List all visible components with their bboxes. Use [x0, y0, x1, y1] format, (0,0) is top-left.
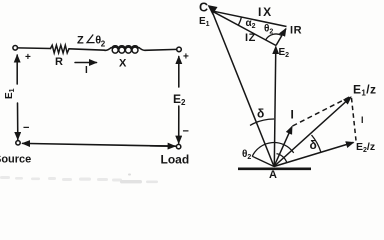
current arrow I	[75, 62, 97, 64]
phasor E1 line A to C	[213, 13, 275, 167]
line IX from C to P	[212, 11, 287, 27]
arc theta2 at top near T	[266, 34, 282, 40]
svg-text:C: C	[199, 1, 208, 15]
arc mid at A	[277, 154, 287, 163]
voltage arrow E1 up	[16, 55, 18, 84]
phasor E2 vertical	[274, 47, 276, 167]
svg-text:−: −	[23, 122, 29, 134]
wire top-right	[145, 48, 177, 51]
phasor I	[274, 127, 292, 167]
svg-text:IR: IR	[290, 25, 302, 37]
svg-text:−: −	[183, 126, 189, 138]
svg-text:2: 2	[101, 40, 106, 49]
node bottom-right terminal	[176, 144, 180, 148]
arc theta2 big at A	[252, 143, 294, 157]
svg-text:+: +	[183, 52, 189, 63]
label Z angle theta2	[77, 35, 106, 49]
node top-left terminal	[13, 46, 18, 51]
svg-text:θ2: θ2	[242, 149, 251, 161]
svg-text:E2: E2	[173, 92, 186, 107]
phasor E2/z	[274, 142, 354, 166]
dashed line I extended to E1/z tip	[293, 97, 351, 127]
arc delta right	[312, 135, 321, 152]
arrow on bottom wire pointing right into load	[150, 145, 175, 147]
dashed line from E1/z tip to E2/z tip	[352, 98, 357, 141]
svg-text:δ: δ	[310, 138, 317, 152]
arc delta left between E1 and E2	[250, 119, 274, 125]
svg-text:Source: Source	[0, 154, 31, 166]
svg-text:IZ: IZ	[245, 32, 256, 44]
resistor R	[51, 45, 70, 53]
svg-text:IX: IX	[258, 5, 273, 19]
svg-text:X: X	[119, 58, 127, 70]
svg-text:E2: E2	[279, 47, 290, 59]
arrowhead at C	[209, 6, 217, 14]
line IZ from tip of E2 to C	[212, 11, 277, 46]
faint scan bleed-through smudges along bottom	[0, 174, 158, 184]
svg-text:+: +	[25, 52, 31, 63]
ray at 155 deg from A	[252, 156, 274, 166]
svg-text:I: I	[85, 65, 88, 76]
svg-text:E1/z: E1/z	[353, 83, 376, 98]
svg-text:R: R	[55, 56, 63, 68]
svg-text:I: I	[291, 108, 294, 122]
node top-right terminal	[177, 47, 182, 52]
wire right vertical lower / E2 down arrow	[178, 106, 180, 143]
node bottom-left terminal	[16, 141, 20, 145]
wire bottom with left arrow	[23, 143, 177, 146]
inductor X	[105, 48, 111, 51]
svg-text:θ2: θ2	[264, 24, 273, 36]
phasor IR	[276, 29, 286, 46]
svg-text:E2/z: E2/z	[356, 141, 375, 154]
svg-text:E1: E1	[199, 16, 210, 28]
svg-text:E1: E1	[4, 88, 16, 99]
voltage arrow E2 up	[178, 57, 180, 88]
phasor E1/z	[274, 97, 351, 167]
svg-text:A: A	[269, 169, 277, 181]
baseline axis through A	[238, 168, 311, 171]
wire between R and X	[69, 49, 105, 50]
wire top-left	[18, 47, 51, 50]
svg-text:δ: δ	[257, 107, 264, 121]
svg-text:Load: Load	[161, 153, 190, 167]
svg-text:I: I	[361, 115, 364, 125]
svg-text:Z: Z	[77, 35, 84, 47]
arc alpha2 at C	[239, 17, 242, 25]
wire left vertical lower	[17, 103, 19, 140]
